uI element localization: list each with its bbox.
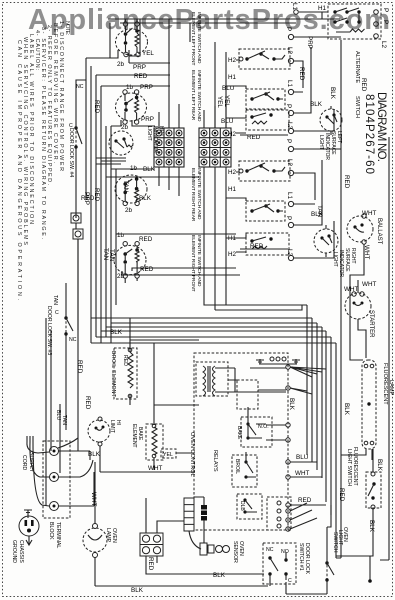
svg-text:L2: L2 (286, 159, 293, 167)
control board edge connector (184, 498, 201, 549)
svg-text:RED: RED (139, 236, 153, 243)
connector block right (3x4 grid) (199, 128, 231, 167)
infinite switch group B box3 (246, 233, 289, 255)
svg-text:BLK: BLK (288, 398, 295, 411)
svg-text:BLK: BLK (329, 87, 336, 100)
svg-text:H1: H1 (318, 5, 327, 12)
svg-text:BLK: BLK (131, 587, 144, 594)
terminal block (43, 438, 94, 548)
svg-text:AppliancePartsPros.com: AppliancePartsPros.com (28, 4, 390, 36)
svg-text:TERMINAL: TERMINAL (55, 522, 61, 548)
svg-text:H2: H2 (228, 131, 237, 138)
right edge long wire (380, 137, 389, 560)
DIAGRAM NO. (363, 92, 387, 174)
svg-text:RED: RED (360, 78, 367, 92)
svg-text:1b: 1b (117, 232, 125, 239)
svg-text:L1: L1 (286, 192, 293, 200)
svg-text:BLK: BLK (213, 572, 226, 579)
oven control box (194, 353, 288, 530)
sensor connector strip (201, 505, 207, 521)
svg-text:P: P (285, 139, 292, 143)
svg-text:TAN: TAN (52, 295, 58, 305)
oven sensor (200, 541, 244, 563)
group A terminals (285, 27, 294, 134)
svg-text:H1: H1 (228, 74, 237, 81)
svg-text:BLK: BLK (110, 329, 123, 336)
control lower terminals fan (286, 509, 290, 513)
svg-text:BLU: BLU (296, 454, 309, 461)
svg-text:WHT: WHT (362, 281, 376, 288)
broil element (110, 340, 137, 405)
surface unit SU2 dashed circle (116, 90, 147, 124)
svg-text:LIGHT: LIGHT (318, 135, 324, 150)
surface unit SU4 (114, 242, 146, 284)
svg-text:STARTER: STARTER (368, 310, 374, 338)
RED bus right (340, 40, 342, 302)
INFINITE SWITCH AND ELEMENT text columns (190, 12, 202, 292)
HOT INDICATOR LIGHT text (146, 126, 164, 153)
left surface indicator light (320, 106, 342, 135)
svg-text:H1: H1 (228, 186, 237, 193)
svg-text:C: C (288, 578, 292, 584)
fluorescent lamp (341, 280, 394, 460)
svg-text:P: P (382, 8, 389, 12)
svg-text:RED: RED (76, 360, 83, 374)
svg-text:YEL: YEL (216, 96, 223, 108)
svg-text:L2: L2 (286, 122, 293, 130)
misc long verticals bottom (331, 505, 341, 558)
svg-text:ALTERNATE: ALTERNATE (354, 51, 360, 83)
svg-text:GROUND: GROUND (11, 540, 17, 563)
svg-text:BROIL ELEMENT: BROIL ELEMENT (110, 351, 116, 397)
door lock switch 2 (325, 527, 334, 591)
svg-text:2b: 2b (117, 61, 125, 68)
svg-text:C: C (55, 310, 59, 316)
svg-text:TAN: TAN (61, 415, 67, 425)
svg-text:INFINITE SWITCH AND: INFINITE SWITCH AND (196, 70, 202, 122)
svg-text:RED: RED (298, 67, 305, 81)
svg-text:RED: RED (147, 557, 154, 571)
connector block left (3x4 grid) (154, 128, 184, 167)
door lock sw 3 (46, 295, 77, 355)
ground symbols in control (256, 357, 300, 364)
group B terminals (285, 139, 294, 261)
svg-text:NC: NC (266, 547, 274, 553)
wires terminals to right buses (294, 37, 341, 258)
svg-text:ELEMENT RIGHT FRONT: ELEMENT RIGHT FRONT (190, 235, 196, 292)
svg-text:RED: RED (122, 355, 128, 366)
bottom BLK wire (95, 585, 268, 587)
wires down-left column (86, 58, 116, 343)
starter (344, 286, 374, 338)
svg-text:SENSOR: SENSOR (232, 541, 238, 563)
YEL tag (161, 449, 176, 458)
supply cord (21, 452, 34, 473)
svg-text:LIGHT: LIGHT (332, 252, 338, 267)
svg-text:ELEMENT LEFT FRONT: ELEMENT LEFT FRONT (190, 12, 196, 65)
svg-text:FLUORESCENT: FLUORESCENT (382, 363, 388, 405)
control terminals and fan-out (235, 365, 326, 507)
notes text block (16, 21, 70, 300)
ballast (347, 210, 382, 302)
bake element (131, 405, 163, 470)
alternate switch (291, 3, 389, 49)
svg-text:SWITCH #1: SWITCH #1 (298, 543, 304, 571)
oven light switch (327, 515, 348, 553)
infinite switch group B box1 (239, 161, 290, 181)
surface unit SU1 dashed circle (116, 19, 148, 57)
svg-text:TAN: TAN (108, 249, 115, 262)
svg-text:P: P (285, 216, 292, 220)
svg-text:ELEMENT: ELEMENT (131, 424, 137, 448)
ALTERNATE SWITCH label (354, 51, 360, 118)
svg-text:ELEMENT LEFT REAR: ELEMENT LEFT REAR (190, 70, 196, 121)
chassis ground (11, 510, 39, 563)
transformer (196, 362, 243, 396)
svg-text:WHT: WHT (295, 470, 309, 477)
right surface indicator light (314, 225, 338, 257)
svg-text:P: P (382, 20, 389, 24)
svg-text:WHT: WHT (90, 492, 97, 506)
svg-text:TAN: TAN (102, 248, 109, 261)
svg-text:BLK: BLK (311, 211, 324, 218)
svg-text:PRP: PRP (133, 64, 146, 71)
aux relay box (267, 497, 291, 530)
svg-text:L2: L2 (286, 47, 293, 55)
svg-text:SWITCH: SWITCH (332, 532, 338, 553)
svg-text:WHT: WHT (362, 210, 376, 217)
infinite switch group A box2 (246, 89, 285, 109)
svg-text:L1: L1 (286, 80, 293, 88)
svg-text:P: P (285, 104, 292, 108)
svg-text:RELAYS: RELAYS (212, 450, 218, 472)
svg-text:BLU: BLU (221, 118, 234, 125)
svg-text:RED: RED (84, 396, 91, 410)
bottom wire to sw2 (286, 591, 327, 594)
svg-text:INFINITE SWITCH AND: INFINITE SWITCH AND (196, 235, 202, 287)
fluorescent light switch (336, 447, 383, 583)
svg-text:PRP: PRP (306, 36, 313, 49)
svg-text:BLK: BLK (368, 520, 375, 533)
svg-text:2b: 2b (125, 207, 133, 214)
svg-text:BROIL: BROIL (234, 459, 240, 474)
svg-text:NO: NO (281, 549, 289, 555)
svg-text:SWITCH: SWITCH (354, 96, 360, 118)
svg-text:BLK: BLK (343, 403, 350, 416)
top rail wires (108, 18, 340, 20)
svg-text:INFINITE SWITCH AND: INFINITE SWITCH AND (196, 12, 202, 64)
svg-text:2b: 2b (121, 124, 129, 131)
svg-text:RED: RED (338, 488, 345, 502)
bake relay (236, 407, 286, 447)
svg-text:DLB: DLB (239, 501, 245, 511)
svg-text:L2: L2 (380, 41, 387, 49)
svg-text:H2: H2 (228, 57, 237, 64)
svg-text:LAMP: LAMP (105, 528, 111, 543)
inner dashed box (237, 380, 258, 409)
svg-text:RED: RED (134, 73, 148, 80)
hot indicator light left (109, 131, 133, 155)
svg-text:PRP: PRP (141, 116, 154, 123)
DLB relay (237, 494, 262, 519)
svg-text:RED: RED (343, 175, 350, 189)
svg-text:CHASSIS: CHASSIS (18, 540, 24, 563)
svg-text:WHT: WHT (148, 465, 162, 472)
svg-text:DIAGRAM NO.: DIAGRAM NO. (375, 92, 387, 162)
svg-text:LIMIT: LIMIT (109, 420, 115, 433)
oven lamp (83, 462, 117, 586)
hi limit (88, 417, 121, 458)
svg-text:RED: RED (140, 266, 154, 273)
svg-text:CORD: CORD (21, 455, 27, 471)
door lock sw 4 (68, 80, 86, 218)
infinite switch group A box1 (239, 49, 290, 69)
infinite switch group B box2 (246, 201, 285, 221)
broil relay (232, 452, 257, 487)
svg-text:NC: NC (69, 337, 77, 343)
red connector pair (140, 498, 264, 574)
svg-text:INFINITE SWITCH AND: INFINITE SWITCH AND (196, 168, 202, 220)
svg-text:PRP: PRP (140, 84, 153, 91)
svg-text:1b: 1b (126, 84, 134, 91)
svg-text:H2: H2 (228, 169, 237, 176)
svg-text:YEL: YEL (142, 50, 154, 57)
svg-text:2b: 2b (117, 273, 125, 280)
surface unit SU3 (115, 175, 147, 206)
svg-text:WHT: WHT (344, 286, 358, 293)
svg-text:L2: L2 (286, 249, 293, 257)
svg-text:8104P267-60: 8104P267-60 (363, 94, 375, 174)
svg-text:P: P (285, 27, 292, 31)
svg-text:BLOCK: BLOCK (48, 522, 54, 540)
svg-text:YEL: YEL (163, 452, 173, 458)
svg-text:DOOR LOCK SW. #4: DOOR LOCK SW. #4 (68, 128, 74, 177)
infinite switch group A box3 (246, 110, 289, 130)
svg-text:H2: H2 (228, 251, 237, 258)
svg-text:BLK: BLK (376, 459, 383, 472)
svg-text:BLK: BLK (139, 195, 152, 202)
svg-text:LIGHT: LIGHT (146, 126, 152, 141)
vertical wire bundle right (307, 305, 336, 558)
wire from transformer to bundle (228, 380, 286, 390)
svg-text:L1: L1 (291, 3, 298, 11)
svg-text:BLU: BLU (55, 410, 61, 420)
red bus continue down (340, 302, 342, 558)
svg-text:RED: RED (298, 497, 312, 504)
BLU WHT RED wires to switches (290, 462, 326, 505)
svg-text:BAKE: BAKE (236, 426, 242, 440)
svg-text:OVEN CONTROL: OVEN CONTROL (189, 432, 195, 477)
svg-text:BLK: BLK (310, 101, 323, 108)
svg-text:ELEMENT RIGHT REAR: ELEMENT RIGHT REAR (190, 168, 196, 222)
wires across oven area (91, 318, 116, 343)
svg-text:NC: NC (76, 84, 84, 90)
svg-text:BALLAST: BALLAST (376, 218, 382, 245)
horizontal wire bundle to oven section (91, 318, 336, 343)
left verticals to supply (46, 239, 91, 506)
wire taps SU1 (86, 19, 140, 63)
wires into connector blocks (110, 19, 226, 198)
door lock switch 1 (263, 543, 310, 594)
connector squares on PRP wires (71, 213, 81, 223)
